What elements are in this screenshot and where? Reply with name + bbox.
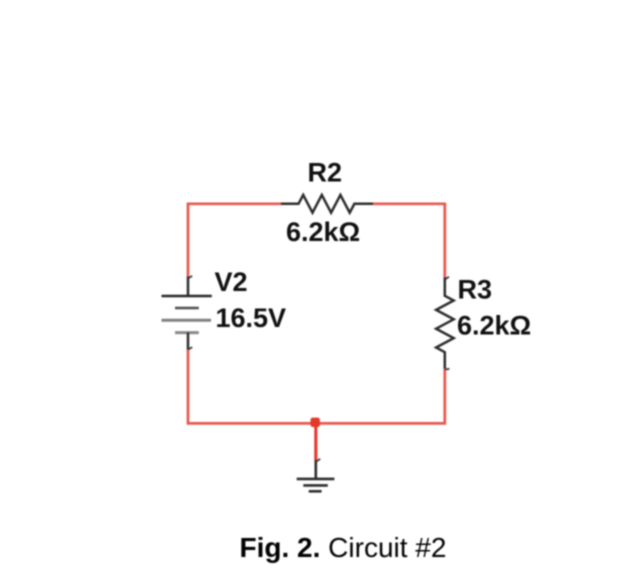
svg-text:6.2kΩ: 6.2kΩ — [457, 311, 531, 341]
svg-text:R2: R2 — [308, 158, 343, 188]
pin tick R3 top — [445, 277, 449, 280]
ground — [297, 460, 335, 491]
resistor R2 — [281, 195, 373, 213]
svg-text:6.2kΩ: 6.2kΩ — [286, 217, 360, 247]
resistor R3 — [436, 277, 454, 369]
svg-text:16.5V: 16.5V — [216, 303, 287, 333]
node junction dot — [311, 418, 320, 427]
pin tick battery top — [188, 276, 192, 278]
wire left-bottom segment — [188, 350, 445, 424]
battery V2 — [162, 276, 212, 349]
pin tick R3 bottom — [445, 368, 449, 371]
wire ground drop — [314, 423, 317, 460]
wire top-right segment — [373, 204, 445, 277]
pin tick ground — [316, 459, 320, 462]
svg-text:Fig. 2. Circuit #2: Fig. 2. Circuit #2 — [240, 532, 447, 563]
pin tick battery bottom — [188, 347, 192, 349]
svg-text:V2: V2 — [215, 267, 248, 297]
wire top-left segment — [188, 204, 281, 276]
svg-text:R3: R3 — [458, 275, 493, 305]
